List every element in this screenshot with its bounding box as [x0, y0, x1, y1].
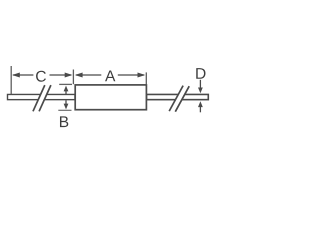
extension line body-right — [145, 72, 147, 84]
dimension B down arrow — [65, 100, 67, 104]
label B — [60, 116, 68, 127]
dimension D down arrow — [199, 80, 201, 89]
label D — [196, 68, 205, 79]
label A — [105, 70, 115, 81]
dimension C line + arrows — [13, 74, 71, 76]
extension line body-left — [72, 70, 74, 85]
break mark right slash 2 — [175, 86, 189, 112]
break mark left slash 1 — [33, 85, 45, 111]
wire left lead — [8, 94, 76, 99]
break gap left lead — [33, 85, 51, 111]
dimension B up arrow — [65, 91, 67, 95]
label C — [36, 71, 46, 82]
break mark right slash 1 — [169, 86, 183, 112]
dimension A line + arrows — [76, 74, 144, 76]
break mark left slash 2 — [39, 85, 51, 111]
extension line left (lead end) — [10, 66, 12, 94]
break gap right lead — [169, 86, 189, 112]
dimension B ticks — [59, 83, 72, 85]
wire right lead — [147, 94, 209, 99]
component body — [75, 85, 146, 110]
dimension D up arrow — [199, 106, 201, 112]
